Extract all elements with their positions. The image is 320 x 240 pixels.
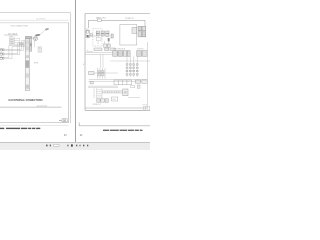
switch S1 (111, 34, 113, 38)
lower ladder labels (93, 89, 95, 99)
svg-text:MAINS 230V: MAINS 230V (96, 16, 107, 19)
right frame bottom outer (85, 109, 150, 111)
bus label box (97, 19, 101, 22)
mid label box (112, 97, 118, 101)
page seam divider (74, 0, 76, 142)
fuse F2 (101, 31, 104, 36)
wire drop a (97, 41, 99, 44)
wire J3 pin2 to strip (3, 45, 26, 57)
wire T1 to filter (90, 35, 97, 37)
connector block row (114, 80, 131, 85)
terminal strip TB1 body (25, 39, 32, 91)
XLR connector J2 (0, 53, 4, 56)
XLR connector J3 (0, 57, 4, 60)
wire strip to XLR plug (32, 38, 34, 40)
strip label block 3 (26, 73, 29, 77)
svg-text:CN4: CN4 (112, 99, 115, 101)
svg-text:PIN 1: PIN 1 (38, 47, 42, 49)
left figure caption smudge (0, 128, 40, 129)
left page top edge (0, 12, 71, 14)
svg-text:PIN 3: PIN 3 (38, 51, 42, 53)
fuse F1 (96, 31, 99, 36)
status bar border (0, 142, 150, 144)
filter enclosure dashed (93, 29, 102, 46)
pot ladder verticals (98, 68, 106, 79)
right frame left (84, 14, 86, 111)
pin legend box (38, 47, 42, 53)
right figure caption smudge (103, 130, 143, 131)
table row text 2 (10, 40, 14, 43)
wire drop to pot ladder b (102, 54, 104, 68)
svg-text:L2: L2 (93, 91, 95, 93)
svg-text:L4: L4 (93, 95, 95, 97)
wire J3 pin3 to strip (3, 47, 26, 59)
psu terminal cluster (138, 26, 146, 37)
status bar (0, 143, 150, 151)
lower ladder (97, 88, 102, 99)
wire J1 pin3 to strip (3, 42, 26, 51)
L wire to control (87, 50, 93, 52)
ribbon cable (103, 91, 123, 93)
bus wire E (88, 85, 118, 87)
lower box row (97, 99, 109, 102)
aux terminal box (89, 71, 94, 74)
cable shell B (45, 28, 49, 31)
page background (0, 0, 150, 150)
svg-text:L3: L3 (93, 93, 95, 95)
horizontal wire pair B (85, 53, 120, 55)
left page right edge (70, 13, 72, 123)
wire drop c (107, 41, 109, 44)
header rule (0, 19, 69, 21)
strip label block 4 (26, 85, 29, 89)
strip label block 1 (26, 55, 29, 58)
terminal strip TB1 header (25, 36, 31, 38)
ribbon end box mark (124, 91, 127, 94)
relay core dark (108, 38, 110, 41)
microphone cable label rule (4, 34, 18, 36)
wire J2 pin3 to strip (3, 44, 26, 54)
table bottom row extension (20, 43, 23, 45)
right frame bottom inner (85, 107, 148, 109)
table row text 1 (10, 38, 14, 41)
long bus wire D (89, 80, 148, 82)
title block box (62, 119, 67, 122)
svg-text:XLR CONNECTIONS: XLR CONNECTIONS (11, 26, 29, 28)
svg-text:MIC CABLE: MIC CABLE (8, 33, 18, 36)
svg-text:L5: L5 (93, 97, 95, 99)
next page top edge (79, 123, 150, 126)
bottom row boxes (94, 48, 115, 51)
ribbon end box (123, 89, 128, 96)
left figure frame top (0, 22, 69, 24)
small junction box (90, 81, 93, 84)
svg-text:INPUT MODULE: INPUT MODULE (113, 49, 125, 51)
control row under relays (104, 44, 111, 47)
pot bank boxes (98, 71, 104, 76)
left figure frame bottom (0, 122, 69, 124)
cable shell A (35, 34, 40, 37)
table row text 3 (10, 42, 14, 45)
wire drop b (104, 41, 106, 44)
horizontal wire pair A (85, 52, 120, 54)
long bus wire C (89, 78, 148, 80)
svg-text:POWER IN: POWER IN (125, 18, 134, 20)
svg-text:L1: L1 (93, 89, 95, 91)
resistor network grid (126, 56, 138, 77)
wire from ribbon box (128, 96, 140, 98)
svg-text:SPKR OUT: SPKR OUT (93, 104, 101, 106)
right title block (144, 106, 150, 110)
right frame right faint (146, 42, 148, 108)
svg-text:speaker line: speaker line (37, 105, 49, 107)
wire J2 pin2 to strip (3, 43, 26, 54)
svg-text:NOTE: NOTE (34, 63, 38, 65)
left figure frame right (68, 23, 70, 123)
small corner box (137, 85, 140, 88)
svg-text:TA SERIES: TA SERIES (36, 18, 46, 21)
toolbar glyphs (46, 144, 88, 146)
filter lower marks (96, 38, 101, 41)
signal wire row (110, 60, 150, 62)
left footer rule (0, 124, 69, 126)
output module group (137, 51, 147, 57)
terminal rungs (25, 40, 32, 51)
svg-text:OUTPUT: OUTPUT (137, 49, 144, 51)
input module group (113, 51, 130, 57)
XLR connector J1 (0, 49, 4, 52)
aux wire (94, 72, 118, 74)
title block dash (59, 119, 62, 121)
small top marks (131, 86, 135, 88)
wire drop to pot ladder a (100, 54, 102, 68)
right frame top (85, 13, 150, 15)
bus wire F (88, 86, 118, 88)
XLR plug P1 (34, 37, 38, 41)
lower rule (0, 106, 62, 108)
wire J1 pin2 to strip (3, 41, 26, 50)
svg-text:PIN 2: PIN 2 (38, 49, 42, 51)
cable hook left of plug (30, 37, 33, 38)
strip label block 2 (26, 60, 29, 67)
cable curve to shell B (40, 30, 45, 35)
wire plug to legend (34, 41, 36, 47)
coupling box (90, 34, 92, 37)
right small boxes row (135, 80, 147, 83)
wire colour table (9, 38, 19, 44)
relay K1 (106, 31, 109, 36)
svg-text:XLR INTERNAL CONNECTIONS: XLR INTERNAL CONNECTIONS (8, 99, 43, 102)
strip dark terminal block (30, 43, 32, 46)
power supply box (120, 25, 137, 46)
psu inner component (132, 28, 137, 34)
transformer T1 (86, 30, 90, 37)
mains bus wire (89, 20, 146, 28)
